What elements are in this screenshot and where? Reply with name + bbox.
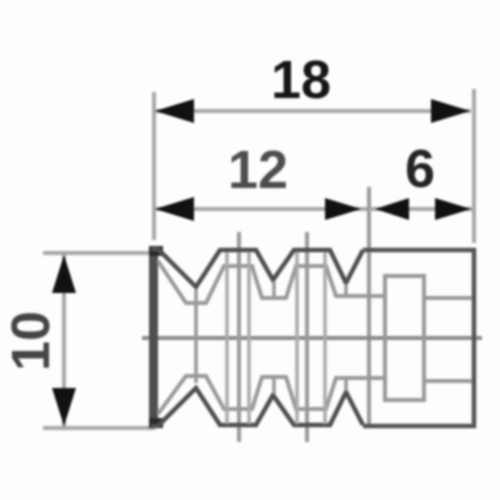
- rib 1 left edge line: [225, 252, 229, 424]
- flange top junction: [149, 246, 163, 256]
- dimension 10: bottom arrowhead: [52, 388, 76, 426]
- dimension 6: right arrowhead: [435, 198, 471, 220]
- dimension 6: left arrowhead: [375, 198, 409, 220]
- svg-text:10: 10: [1, 311, 61, 371]
- cylinder core line bottom: [424, 379, 472, 383]
- rib 2 right edge line: [323, 252, 327, 424]
- dimension 12: dimension line: [154, 207, 369, 211]
- svg-text:18: 18: [271, 50, 331, 110]
- bellows outer profile top: [151, 249, 363, 287]
- cylinder bottom edge: [363, 424, 476, 429]
- dimension 10: top extension line: [43, 251, 152, 255]
- dimension 12: left arrowhead: [155, 197, 194, 221]
- dimension 18: right extension line: [472, 89, 476, 243]
- bellows inner contour bottom: [158, 376, 385, 414]
- dimension 12: right arrowhead: [325, 198, 361, 220]
- valley 2 vertical stub bottom: [272, 377, 276, 394]
- dimension 6: dimension line: [369, 207, 473, 211]
- horizontal centerline: [142, 336, 482, 340]
- dimension 18: right arrowhead: [431, 99, 470, 123]
- valley 2 vertical stub top: [272, 281, 276, 298]
- dimension 10: top arrowhead: [52, 255, 76, 293]
- valley 3 vertical stub bottom: [344, 379, 348, 391]
- valley 3 vertical stub top: [344, 284, 348, 296]
- dimension 18: left extension line: [152, 92, 156, 240]
- cylinder top edge: [363, 248, 476, 253]
- rib 2 centerline: [305, 232, 309, 442]
- rib 2 left edge line: [295, 252, 299, 424]
- svg-text:6: 6: [405, 139, 435, 199]
- rib 1 centerline: [237, 232, 241, 442]
- valley 1 vertical: [194, 290, 198, 383]
- dimension 18: left arrowhead: [155, 99, 194, 123]
- cylinder right edge: [472, 248, 477, 428]
- rib 1 right edge line: [247, 252, 251, 424]
- dimension 18: dimension line: [154, 109, 471, 113]
- svg-text:12: 12: [228, 140, 288, 200]
- inner slot rectangle: [385, 276, 424, 400]
- bellows inner contour top: [158, 261, 385, 303]
- dimension 10: dimension line: [62, 253, 66, 428]
- cylinder core line top: [424, 296, 472, 300]
- dimension 10: bottom extension line: [43, 426, 155, 430]
- bellows outer profile bottom: [151, 388, 363, 426]
- dimension 6: separator extension line (also left edge of cylinder): [367, 187, 371, 426]
- left flange: [149, 246, 158, 428]
- flange bottom junction: [149, 418, 163, 428]
